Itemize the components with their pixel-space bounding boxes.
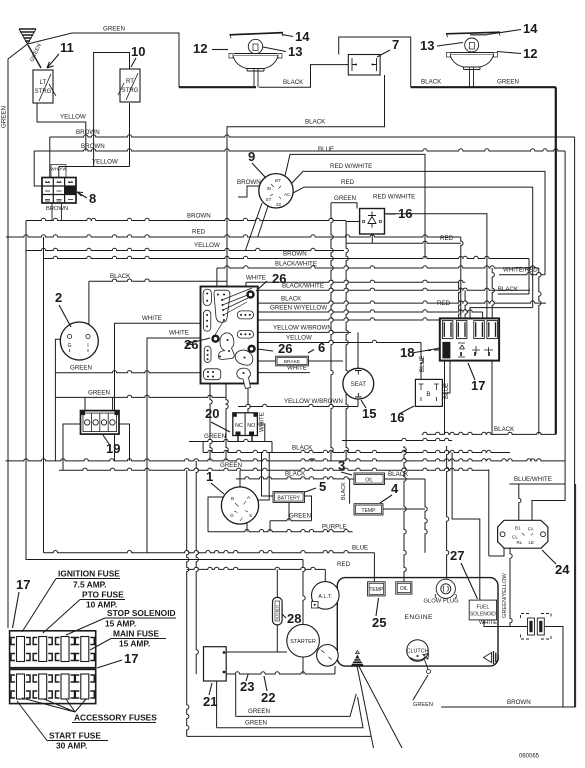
wire YELLOW bus 3	[26, 248, 344, 250]
wire seat top	[357, 332, 359, 368]
wire starter top stub	[303, 560, 305, 625]
wire BROWN bus 2	[34, 149, 565, 151]
wire item19 left	[63, 424, 81, 470]
svg-text:STRG: STRG	[35, 89, 52, 95]
wire conn24 bottom green yellow	[510, 548, 512, 626]
svg-text:GREEN: GREEN	[103, 26, 125, 33]
svg-text:RT: RT	[126, 79, 134, 85]
wire box20 legs	[238, 436, 252, 442]
wire green A drop	[271, 442, 273, 453]
wire lamp1 to relay	[259, 65, 348, 88]
wire RT STRG bottom	[129, 103, 131, 167]
wire lamp2 stem	[470, 68, 474, 88]
engine block outline	[337, 578, 498, 667]
wire BROWN bottom	[441, 706, 575, 708]
svg-text:STRG: STRG	[122, 88, 139, 94]
wire conn24 stub b1	[519, 484, 521, 520]
wire GREEN battery	[270, 519, 312, 521]
wire BROWN bus 4	[44, 256, 530, 258]
starter	[287, 624, 338, 666]
wire item19 stub B	[112, 397, 114, 410]
svg-text:BROWN: BROWN	[187, 213, 211, 220]
brake switch 6	[276, 356, 309, 366]
svg-text:TEMP: TEMP	[362, 508, 377, 514]
svg-text:ST: ST	[266, 197, 272, 202]
battery 5	[273, 492, 305, 503]
wire battery right	[305, 496, 312, 521]
svg-text:BROWN: BROWN	[237, 179, 261, 186]
wire green AB link	[202, 442, 204, 453]
wire bus into fuseblock top	[258, 318, 440, 320]
svg-text:12: 12	[193, 41, 207, 56]
svg-text:GREEN: GREEN	[1, 106, 8, 128]
svg-text:AC: AC	[284, 192, 291, 197]
svg-text:CL: CL	[512, 535, 518, 540]
wire oil engine stub	[404, 446, 406, 582]
svg-text:FA: FA	[528, 527, 535, 532]
wire circle2 top	[88, 281, 90, 327]
svg-text:BROWN: BROWN	[283, 251, 307, 258]
svg-text:YELLOW W/BROWN: YELLOW W/BROWN	[273, 324, 332, 331]
wire bus BLACKWHITE block	[217, 266, 539, 268]
wire BROWN stub switch9	[238, 186, 259, 197]
wire BLUE from switch9	[285, 154, 425, 258]
wire GREEN item19	[55, 395, 226, 397]
svg-text:WHITE/RED: WHITE/RED	[503, 267, 538, 274]
svg-text:S: S	[249, 513, 252, 519]
svg-text:START FUSE: START FUSE	[49, 731, 101, 741]
wire green from ground to top bus	[28, 33, 180, 87]
fuse box 17	[10, 631, 96, 704]
svg-text:BLACK: BLACK	[341, 482, 347, 500]
svg-text:BATTERY: BATTERY	[277, 496, 300, 502]
wire box21 green1	[235, 674, 237, 716]
wire vert right low	[575, 484, 577, 707]
svg-text:2: 2	[55, 290, 62, 305]
wire RED from switch9	[293, 187, 533, 308]
wire connector8 stub A	[49, 137, 51, 179]
wire ground diag 2	[359, 666, 402, 748]
svg-text:I: I	[87, 343, 88, 349]
svg-text:GREEN: GREEN	[289, 513, 311, 520]
inline fuse holder 24area	[521, 614, 552, 640]
svg-text:BROWN: BROWN	[507, 699, 531, 706]
svg-text:BLACK: BLACK	[305, 119, 326, 126]
temp switch 4	[354, 504, 383, 515]
wire seat bottom	[357, 399, 359, 407]
wire switch1 right	[257, 453, 269, 501]
svg-text:NC: NC	[235, 423, 243, 429]
wire bus y461 long	[6, 459, 566, 461]
engine right ground symbol	[484, 651, 499, 664]
svg-text:B: B	[426, 391, 430, 398]
svg-text:BLACK: BLACK	[494, 426, 515, 433]
temp sender 25	[368, 582, 386, 596]
svg-text:RED: RED	[440, 235, 454, 242]
relay 7	[348, 55, 380, 76]
svg-text:BLACK: BLACK	[285, 471, 306, 478]
svg-text:B: B	[231, 496, 234, 502]
wire WHITE RED right	[499, 273, 545, 275]
svg-text:15: 15	[362, 406, 376, 421]
wire BLACK circle2	[89, 279, 227, 281]
wire switch9 diag to yellow	[245, 203, 262, 251]
wire BLUE WHITE	[510, 483, 566, 485]
wire fuse stub 1	[459, 282, 461, 318]
svg-text:GREEN: GREEN	[70, 364, 92, 371]
wire bus WHITE block	[246, 280, 465, 282]
svg-text:RED: RED	[341, 179, 355, 186]
wire ground diag 1	[357, 666, 374, 748]
svg-text:STOP SOLENOID: STOP SOLENOID	[107, 608, 176, 618]
wire box16 top left	[421, 343, 423, 380]
wire GREEN circle2	[55, 371, 200, 373]
wire slo-blo bottom	[276, 624, 278, 652]
svg-text:17: 17	[124, 651, 138, 666]
svg-text:GREEN: GREEN	[413, 702, 433, 708]
svg-text:13: 13	[420, 38, 434, 53]
svg-text:LT: LT	[40, 80, 47, 86]
svg-text:ENGINE: ENGINE	[405, 614, 434, 621]
wire right vert 538.8	[539, 268, 541, 434]
fuel solenoid	[469, 600, 496, 620]
ground symbol top-left	[19, 29, 36, 44]
svg-text:BLACK/WHITE: BLACK/WHITE	[282, 282, 324, 289]
wire fuel link	[489, 548, 504, 556]
wire battery green drop	[269, 521, 271, 532]
wire right vert 529	[528, 259, 530, 295]
wire fuse stub 2	[465, 290, 467, 318]
svg-text:GREEN: GREEN	[220, 462, 242, 469]
wire box16 right	[442, 361, 450, 394]
svg-text:MAIN FUSE: MAIN FUSE	[113, 629, 159, 639]
svg-text:GLOW PLUG: GLOW PLUG	[424, 599, 460, 605]
wire item19 stub A	[84, 397, 86, 410]
wire starter drop	[334, 666, 336, 674]
svg-text:WHITE: WHITE	[246, 274, 266, 281]
svg-text:30 AMP.: 30 AMP.	[56, 741, 87, 751]
wire left vertical 1	[26, 221, 303, 560]
wire BROWN bus 1	[50, 135, 575, 137]
engine ground symbol	[351, 651, 363, 666]
wire bus GREEN W YELLOW	[258, 310, 483, 312]
wire clutch tail	[413, 675, 428, 700]
svg-text:STARTER: STARTER	[290, 639, 316, 645]
wire alt top stub	[324, 569, 326, 581]
wire BLACK mid right	[422, 432, 556, 434]
svg-text:LE: LE	[529, 540, 535, 545]
svg-text:YELLOW: YELLOW	[92, 159, 118, 166]
svg-text:17: 17	[471, 378, 485, 393]
svg-text:NO: NO	[247, 423, 255, 429]
svg-text:GREEN: GREEN	[204, 433, 226, 440]
svg-text:GREEN: GREEN	[248, 708, 270, 715]
wire bus YELLOW	[258, 340, 421, 342]
svg-text:OIL: OIL	[400, 586, 408, 592]
wire bottom loop line	[187, 735, 371, 737]
svg-text:BROWN: BROWN	[81, 143, 105, 150]
svg-text:22: 22	[261, 690, 275, 705]
svg-text:SLO-BLO: SLO-BLO	[276, 605, 280, 620]
wire temp25 stub	[373, 553, 375, 582]
svg-text:24: 24	[555, 562, 570, 577]
wire RED engine	[187, 567, 326, 569]
svg-text:RED: RED	[437, 300, 451, 307]
svg-text:BLUE/WHITE: BLUE/WHITE	[514, 476, 552, 483]
wire oil3 left black	[350, 479, 354, 504]
wire inline fuse right	[544, 627, 563, 708]
alternator 28	[312, 582, 340, 610]
wire item19 right	[119, 424, 130, 461]
wire RED bus	[6, 235, 461, 237]
regulator 21	[204, 647, 227, 681]
wire GREEN box20	[189, 439, 272, 441]
wire fuseblock down 2	[491, 361, 493, 435]
svg-text:WHITE: WHITE	[259, 412, 266, 432]
wire conn24 left leg	[452, 452, 480, 556]
svg-text:27: 27	[450, 548, 464, 563]
wire fuse stub 5	[492, 268, 494, 318]
wire left low vert 2	[196, 461, 198, 674]
svg-text:PTO FUSE: PTO FUSE	[82, 590, 124, 600]
wire diode bottom	[371, 234, 373, 243]
svg-text:RED W/WHITE: RED W/WHITE	[330, 163, 372, 170]
wire blue white hook	[532, 484, 565, 520]
svg-text:BLACK/WHITE: BLACK/WHITE	[275, 260, 317, 267]
svg-text:12: 12	[523, 46, 537, 61]
clutch	[407, 640, 431, 674]
svg-text:GREEN: GREEN	[245, 719, 267, 726]
svg-text:3: 3	[338, 458, 345, 473]
svg-text:BLACK: BLACK	[110, 273, 131, 280]
svg-text:32: 32	[276, 202, 282, 207]
wire bus YELLOW W BROWN	[258, 330, 351, 332]
wire lamp1 feed thick	[179, 86, 256, 88]
svg-text:YELLOW: YELLOW	[194, 242, 220, 249]
wire glow stub	[447, 446, 449, 579]
svg-text:G: G	[230, 513, 234, 519]
svg-text:4: 4	[391, 481, 399, 496]
wire GREEN bottom 2	[217, 697, 363, 728]
svg-text:10: 10	[131, 44, 145, 59]
wire starter bottom stub	[302, 657, 304, 674]
svg-text:21: 21	[203, 694, 217, 709]
wire connector8 left	[34, 151, 42, 186]
wire green right vertical thick	[555, 87, 557, 434]
svg-text:28: 28	[287, 611, 301, 626]
wire diode bottom bus	[346, 241, 461, 243]
svg-text:5: 5	[319, 479, 326, 494]
svg-text:IN: IN	[267, 186, 272, 191]
svg-text:BLACK: BLACK	[388, 471, 409, 478]
svg-text:14: 14	[523, 21, 538, 36]
wire conn24 left leg2	[479, 556, 481, 621]
RT STRG switch 10	[118, 69, 140, 102]
svg-text:BLACK: BLACK	[281, 296, 302, 303]
svg-text:A.L.T.: A.L.T.	[318, 594, 332, 600]
svg-text:8: 8	[89, 191, 96, 206]
svg-text:YELLOW: YELLOW	[60, 114, 86, 121]
wire brake left	[258, 360, 276, 362]
svg-text:SEAT: SEAT	[351, 382, 367, 388]
svg-text:25: 25	[372, 615, 386, 630]
wire box21 top right	[226, 651, 287, 653]
lamp module 19	[81, 411, 120, 435]
svg-text:26: 26	[278, 341, 292, 356]
svg-text:15 AMP.: 15 AMP.	[119, 639, 150, 649]
wire relay7 top loop	[339, 37, 411, 87]
LT STRG switch 11	[33, 70, 56, 103]
svg-text:BRAKE: BRAKE	[284, 359, 300, 365]
svg-text:14: 14	[295, 29, 310, 44]
svg-text:26: 26	[272, 271, 286, 286]
wire bus y450	[203, 450, 510, 452]
svg-text:BROWN: BROWN	[46, 206, 68, 212]
wire box21 green2	[216, 681, 218, 728]
svg-text:BLACK: BLACK	[283, 79, 304, 86]
svg-text:G: G	[67, 343, 71, 349]
wire switch1 bottom	[246, 523, 248, 532]
svg-text:RED: RED	[192, 229, 206, 236]
wire diode left pin	[346, 222, 360, 244]
ignition switch 1	[221, 487, 258, 524]
hour meter 2	[60, 322, 98, 360]
wire BROWN bus2 right drop	[564, 151, 566, 484]
wire temp4 right	[383, 508, 425, 510]
oil sender engine	[396, 582, 412, 594]
wire right vert 425 low	[425, 479, 427, 553]
diode module 16	[360, 209, 385, 235]
wire connector8 feet	[52, 201, 61, 220]
wire bus BLACKWHITE2 block	[252, 290, 255, 292]
svg-text:BROWN: BROWN	[76, 129, 100, 136]
svg-text:PURPLE: PURPLE	[322, 523, 347, 530]
svg-text:11: 11	[60, 40, 74, 55]
wire bus y470	[59, 468, 489, 470]
wire GREEN to diode	[331, 203, 357, 209]
svg-text:BLACK: BLACK	[421, 79, 442, 86]
svg-text:BLACK: BLACK	[498, 286, 519, 293]
wire BROWN bus 3	[26, 218, 346, 220]
svg-text:GREEN W/YELLOW: GREEN W/YELLOW	[270, 305, 327, 312]
svg-text:7.5 AMP.: 7.5 AMP.	[73, 580, 107, 590]
svg-text:IGNITION FUSE: IGNITION FUSE	[58, 569, 120, 579]
svg-text:9: 9	[248, 149, 255, 164]
wire YELLOW W BROWN bus low	[238, 404, 358, 406]
wire bus BLACK block	[258, 301, 546, 303]
glow plug	[435, 579, 456, 598]
wire brake right	[309, 360, 344, 362]
wire WHITE upper left	[115, 323, 201, 461]
wire slo-blo top	[276, 569, 278, 597]
wire YELLOW bus 2	[59, 166, 130, 168]
wire connector8 stub B	[58, 167, 60, 179]
connector 24	[498, 520, 548, 548]
wire green diagonal to LT STRG	[28, 45, 41, 68]
svg-text:OIL: OIL	[365, 477, 373, 483]
svg-text:TEMP: TEMP	[369, 587, 384, 593]
wire block26 drop 3	[248, 384, 250, 413]
svg-text:GREEN/YELLOW: GREEN/YELLOW	[502, 573, 508, 618]
wire GREEN W YELLOW stub	[482, 312, 484, 318]
svg-text:20: 20	[205, 406, 219, 421]
relay 16 B	[415, 379, 442, 406]
wire green diode vertical	[331, 203, 333, 461]
wire fuseblock down 1	[444, 361, 446, 435]
svg-text:SOLENOID: SOLENOID	[470, 611, 496, 617]
svg-text:FUEL: FUEL	[477, 604, 490, 610]
wire box20 white right	[257, 424, 264, 442]
svg-text:GREEN: GREEN	[334, 195, 356, 202]
wire switch1 top stub	[239, 470, 241, 487]
svg-text:RL: RL	[517, 540, 523, 545]
svg-text:13: 13	[288, 44, 302, 59]
svg-text:GREEN: GREEN	[88, 389, 110, 396]
wire fuel solenoid bottom	[484, 618, 528, 626]
wire BROWN bus 1 right drop	[574, 137, 576, 707]
svg-text:WH/YW: WH/YW	[50, 167, 67, 172]
wire diode left vertical	[346, 243, 348, 461]
svg-text:6: 6	[318, 340, 325, 355]
wire circle2 left	[55, 339, 68, 461]
wire BLACK GREEN lamp bus thick	[411, 86, 556, 88]
wire oil3 right	[385, 478, 426, 480]
svg-text:WHITE: WHITE	[169, 330, 189, 337]
svg-text:1: 1	[206, 469, 213, 484]
wire right black short	[498, 293, 529, 295]
wire box21 bottom right bus	[226, 672, 335, 674]
fuse block right 17 18	[440, 318, 499, 360]
svg-text:WHITE: WHITE	[479, 620, 497, 626]
wire RT STRG top loop	[94, 53, 130, 167]
wire green left vertical	[8, 44, 28, 628]
wire bus y440 right	[342, 438, 452, 440]
headlamp 12 right	[446, 32, 500, 69]
wire PURPLE bus	[208, 530, 353, 532]
wire BLACKWHITE block stub	[216, 268, 218, 287]
seat switch 15	[343, 368, 374, 399]
svg-text:BLUE: BLUE	[419, 356, 426, 372]
svg-text:17: 17	[16, 577, 30, 592]
key switch 9	[259, 174, 293, 208]
wire block26 drop 1	[210, 384, 212, 461]
svg-text:BLUE: BLUE	[318, 146, 334, 153]
wire battery left	[262, 453, 274, 497]
wire WHITE block stub	[245, 282, 247, 290]
svg-text:23: 23	[240, 679, 254, 694]
wire RED W WHITE diode	[380, 214, 487, 319]
wire GREEN bottom 1	[236, 694, 357, 716]
svg-text:GREEN: GREEN	[497, 79, 519, 86]
svg-text:RED: RED	[337, 561, 351, 568]
wire left low vert 1	[187, 470, 189, 736]
svg-text:RED W/WHITE: RED W/WHITE	[373, 193, 415, 200]
svg-text:ACCESSORY FUSES: ACCESSORY FUSES	[74, 713, 157, 723]
oil switch 3	[354, 473, 385, 485]
connector 8	[42, 165, 76, 213]
wire RED drop to fuse block	[461, 237, 463, 318]
wire yellow under LT STRG	[37, 103, 86, 151]
svg-text:CLUTCH: CLUTCH	[407, 649, 429, 655]
svg-text:WHITE: WHITE	[142, 315, 162, 322]
svg-text:BT: BT	[275, 178, 281, 183]
svg-text:060065: 060065	[519, 754, 540, 760]
wire RED fuse top	[470, 308, 533, 319]
wire lamp1 stem	[254, 68, 258, 88]
wire BLUE engine	[44, 551, 375, 553]
slo-blo fuse 28	[273, 597, 283, 625]
connector block 26	[201, 287, 258, 389]
